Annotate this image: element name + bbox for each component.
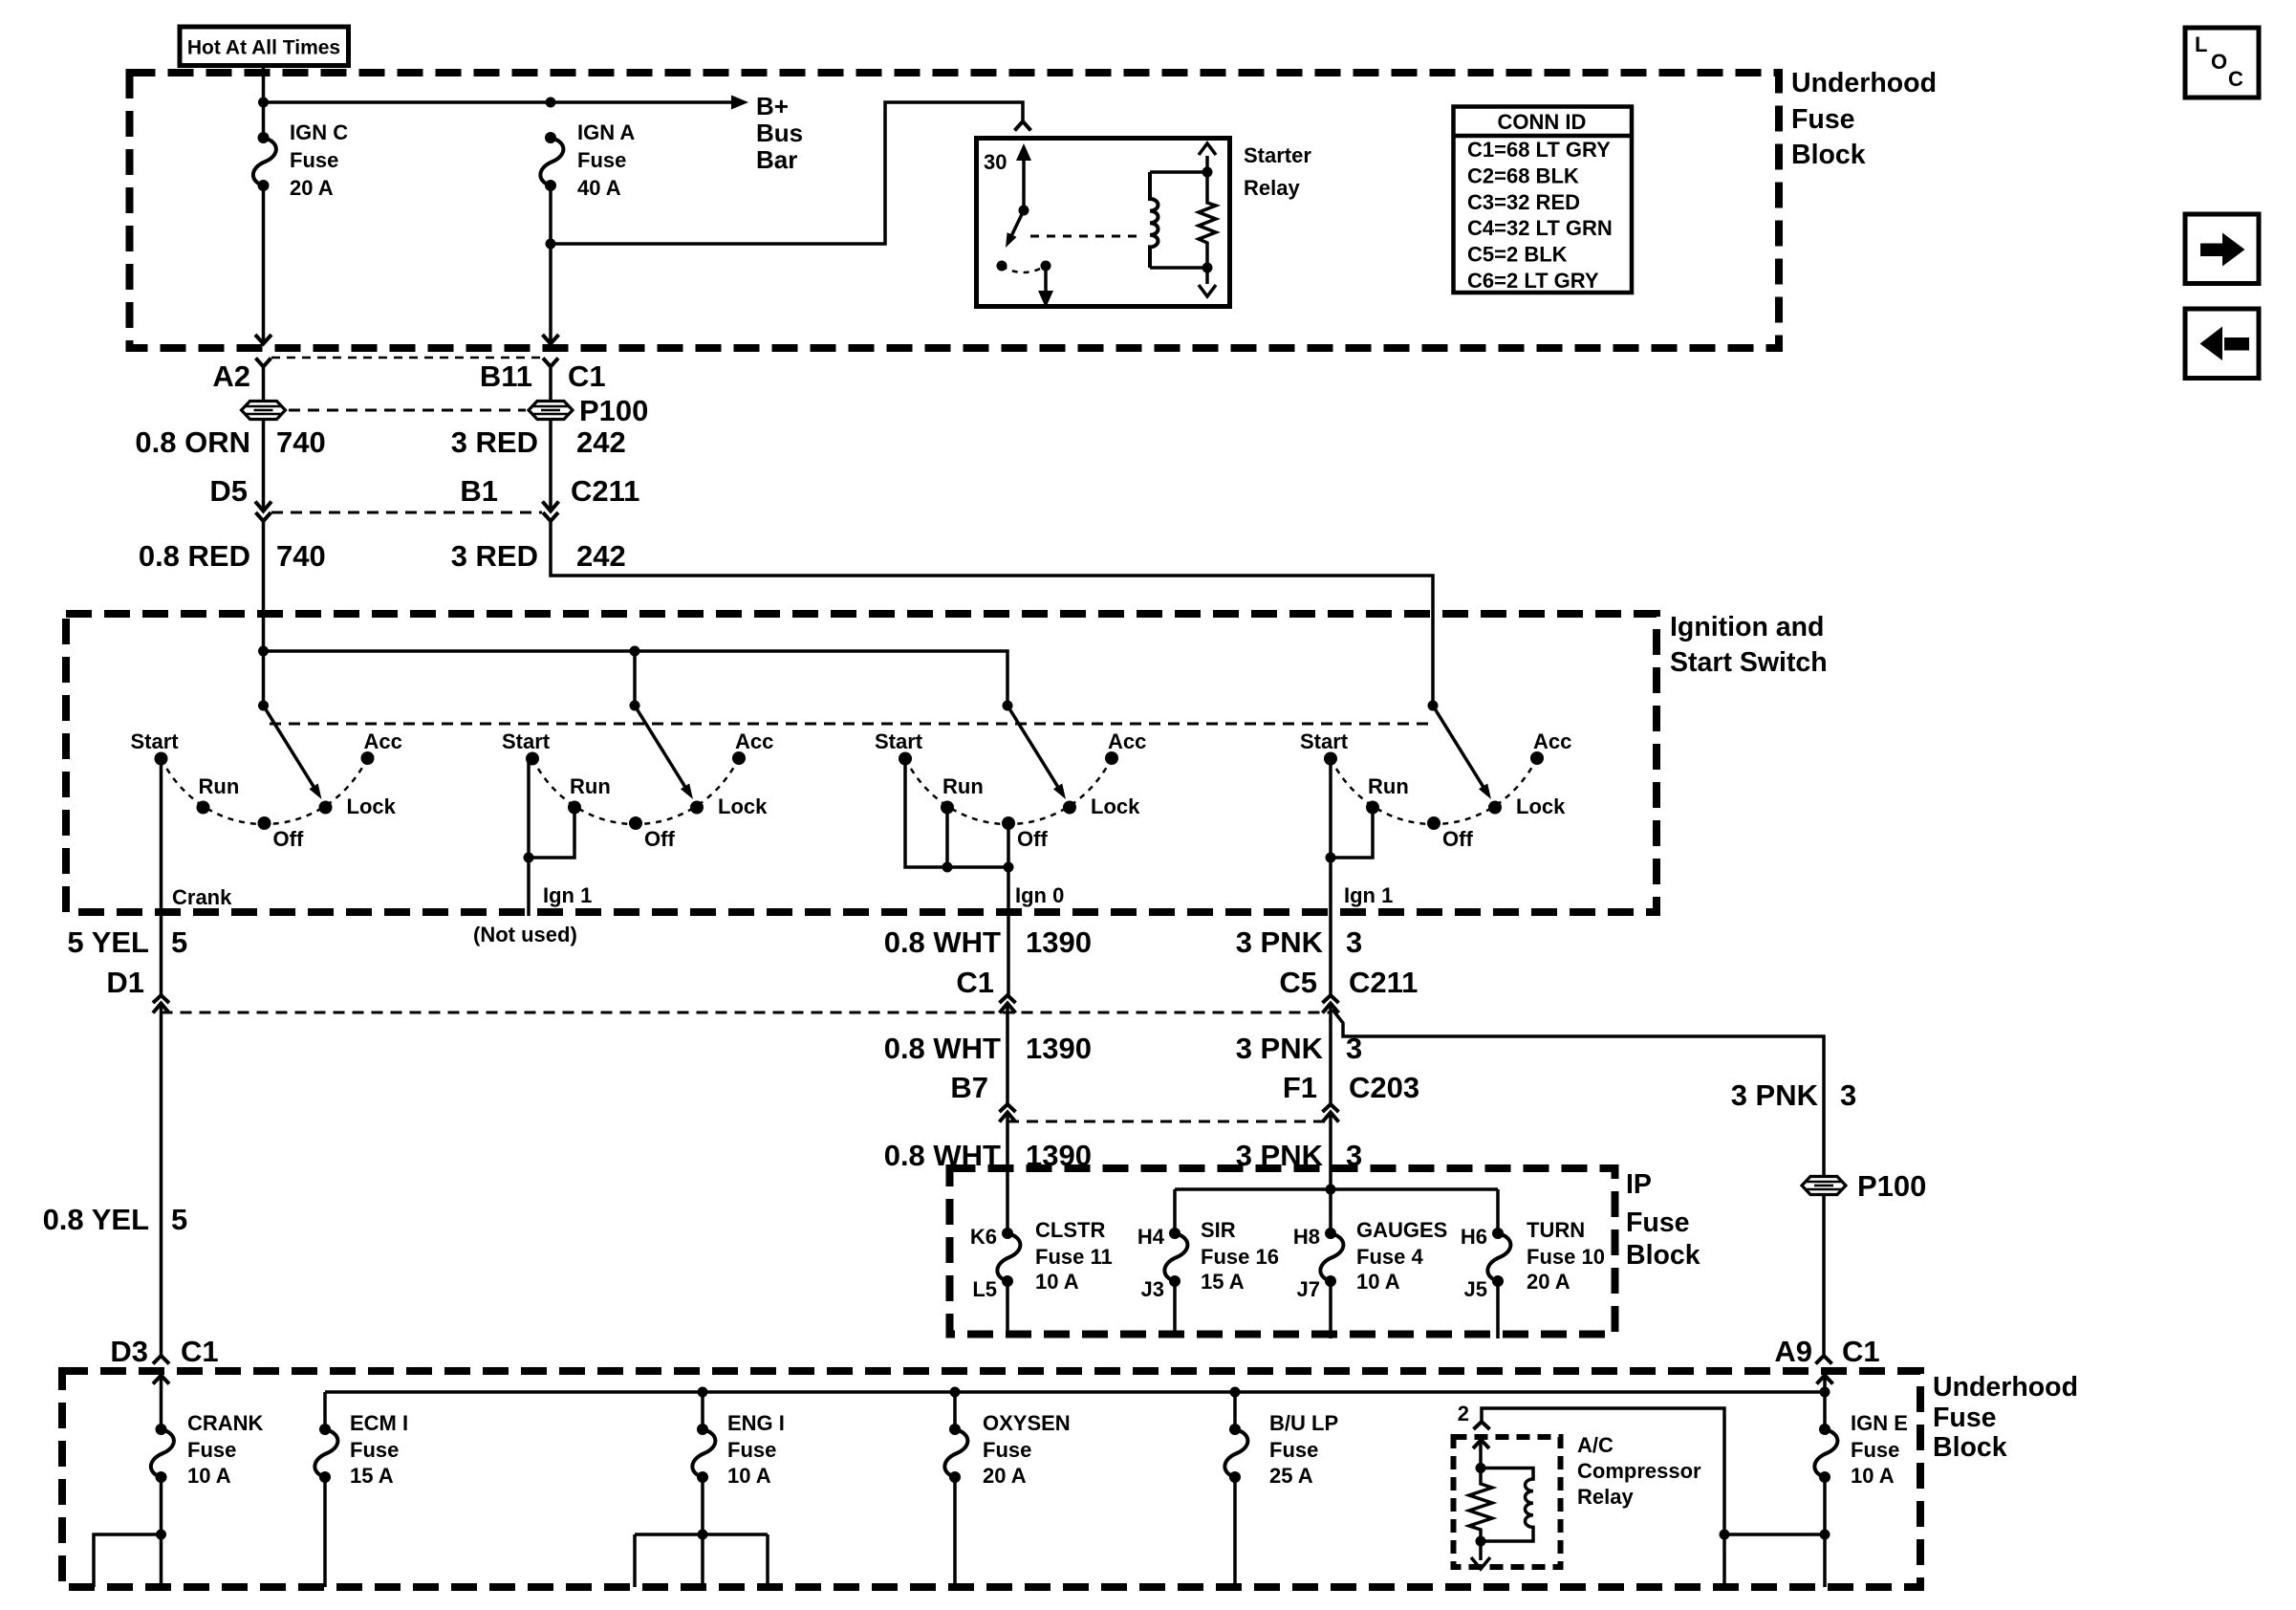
svg-text:Fuse: Fuse bbox=[1791, 104, 1855, 135]
svg-text:Run: Run bbox=[1368, 774, 1409, 798]
svg-text:Fuse: Fuse bbox=[1626, 1207, 1690, 1238]
svg-text:Ign 1: Ign 1 bbox=[1344, 883, 1393, 907]
svg-text:2: 2 bbox=[1458, 1402, 1469, 1425]
svg-text:K6: K6 bbox=[970, 1225, 997, 1249]
svg-text:C211: C211 bbox=[1349, 966, 1418, 999]
svg-text:Ignition and: Ignition and bbox=[1670, 612, 1824, 642]
svg-text:C2=68 BLK: C2=68 BLK bbox=[1467, 163, 1579, 187]
svg-text:D3: D3 bbox=[110, 1335, 148, 1368]
svg-text:Underhood: Underhood bbox=[1791, 68, 1937, 98]
svg-text:Fuse 16: Fuse 16 bbox=[1201, 1245, 1279, 1269]
svg-text:L5: L5 bbox=[972, 1277, 997, 1301]
svg-text:3 PNK: 3 PNK bbox=[1236, 1032, 1324, 1065]
svg-text:Start: Start bbox=[1300, 729, 1349, 753]
svg-text:Fuse: Fuse bbox=[1851, 1438, 1899, 1462]
svg-text:ECM I: ECM I bbox=[350, 1411, 408, 1435]
svg-text:Fuse: Fuse bbox=[350, 1438, 399, 1462]
svg-text:740: 740 bbox=[276, 425, 326, 459]
svg-text:20 A: 20 A bbox=[983, 1464, 1027, 1488]
svg-text:Start Switch: Start Switch bbox=[1670, 647, 1828, 678]
svg-text:Bus: Bus bbox=[756, 119, 803, 147]
svg-text:3: 3 bbox=[1840, 1078, 1856, 1112]
svg-text:Hot At All Times: Hot At All Times bbox=[187, 37, 340, 59]
svg-text:C203: C203 bbox=[1349, 1071, 1419, 1104]
svg-text:Fuse 11: Fuse 11 bbox=[1035, 1245, 1113, 1269]
svg-text:A9: A9 bbox=[1774, 1335, 1812, 1368]
svg-text:C3=32 RED: C3=32 RED bbox=[1467, 190, 1580, 214]
svg-text:Acc: Acc bbox=[1108, 729, 1146, 753]
svg-text:SIR: SIR bbox=[1201, 1218, 1236, 1242]
svg-text:242: 242 bbox=[576, 425, 626, 459]
svg-text:Start: Start bbox=[131, 729, 180, 753]
svg-text:Off: Off bbox=[1442, 827, 1473, 851]
svg-text:3: 3 bbox=[1346, 925, 1362, 959]
svg-text:0.8 WHT: 0.8 WHT bbox=[884, 1032, 1001, 1065]
svg-text:P100: P100 bbox=[579, 394, 648, 427]
svg-text:CONN ID: CONN ID bbox=[1498, 110, 1587, 134]
svg-text:Fuse 10: Fuse 10 bbox=[1527, 1245, 1605, 1269]
svg-text:Crank: Crank bbox=[172, 885, 232, 909]
svg-text:D5: D5 bbox=[209, 474, 248, 508]
svg-text:Run: Run bbox=[199, 774, 240, 798]
svg-text:A2: A2 bbox=[212, 359, 250, 393]
svg-text:J5: J5 bbox=[1464, 1277, 1487, 1301]
svg-text:5: 5 bbox=[171, 925, 187, 959]
svg-text:IP: IP bbox=[1626, 1169, 1652, 1200]
svg-text:Fuse: Fuse bbox=[290, 148, 338, 172]
svg-text:GAUGES: GAUGES bbox=[1356, 1218, 1447, 1242]
svg-text:B/U LP: B/U LP bbox=[1269, 1411, 1338, 1435]
svg-text:IGN C: IGN C bbox=[290, 120, 348, 144]
svg-text:Lock: Lock bbox=[718, 794, 768, 818]
svg-text:Off: Off bbox=[1017, 827, 1048, 851]
svg-text:1390: 1390 bbox=[1026, 1032, 1092, 1065]
svg-text:J3: J3 bbox=[1141, 1277, 1164, 1301]
svg-text:10 A: 10 A bbox=[1035, 1270, 1079, 1294]
svg-text:Off: Off bbox=[644, 827, 675, 851]
svg-text:Fuse: Fuse bbox=[187, 1438, 236, 1462]
svg-text:Start: Start bbox=[502, 729, 551, 753]
svg-text:ENG I: ENG I bbox=[727, 1411, 785, 1435]
svg-text:B+: B+ bbox=[756, 92, 789, 120]
svg-text:10 A: 10 A bbox=[1851, 1464, 1895, 1488]
svg-text:740: 740 bbox=[276, 539, 326, 573]
svg-text:Bar: Bar bbox=[756, 145, 797, 174]
svg-text:Relay: Relay bbox=[1577, 1485, 1634, 1509]
svg-text:Ign 1: Ign 1 bbox=[543, 883, 592, 907]
svg-text:TURN: TURN bbox=[1527, 1218, 1585, 1242]
svg-text:0.8 YEL: 0.8 YEL bbox=[43, 1203, 149, 1236]
svg-text:Fuse: Fuse bbox=[727, 1438, 776, 1462]
svg-text:C6=2 LT GRY: C6=2 LT GRY bbox=[1467, 269, 1599, 293]
svg-text:C: C bbox=[2228, 67, 2243, 91]
svg-text:Underhood: Underhood bbox=[1933, 1372, 2078, 1403]
svg-text:C211: C211 bbox=[571, 474, 639, 508]
svg-text:0.8 WHT: 0.8 WHT bbox=[884, 1139, 1001, 1172]
svg-text:C1: C1 bbox=[956, 966, 994, 999]
svg-text:C5: C5 bbox=[1279, 966, 1317, 999]
svg-text:Acc: Acc bbox=[1533, 729, 1571, 753]
svg-text:20 A: 20 A bbox=[290, 176, 334, 200]
svg-text:CRANK: CRANK bbox=[187, 1411, 264, 1435]
svg-text:5: 5 bbox=[171, 1203, 187, 1236]
svg-text:Fuse 4: Fuse 4 bbox=[1356, 1245, 1423, 1269]
svg-text:C5=2 BLK: C5=2 BLK bbox=[1467, 243, 1568, 267]
svg-text:Off: Off bbox=[273, 827, 304, 851]
svg-text:0.8 RED: 0.8 RED bbox=[139, 539, 250, 573]
svg-text:3 PNK: 3 PNK bbox=[1236, 925, 1324, 959]
svg-text:C1: C1 bbox=[1842, 1335, 1880, 1368]
svg-text:10 A: 10 A bbox=[187, 1464, 231, 1488]
svg-text:15 A: 15 A bbox=[1201, 1270, 1245, 1294]
svg-text:40 A: 40 A bbox=[577, 176, 621, 200]
svg-text:10 A: 10 A bbox=[1356, 1270, 1400, 1294]
svg-text:B7: B7 bbox=[950, 1071, 988, 1104]
svg-text:25 A: 25 A bbox=[1269, 1464, 1313, 1488]
svg-text:Block: Block bbox=[1791, 140, 1866, 170]
svg-text:Block: Block bbox=[1626, 1240, 1700, 1271]
svg-text:Acc: Acc bbox=[735, 729, 773, 753]
svg-text:Relay: Relay bbox=[1244, 176, 1300, 200]
svg-text:3 RED: 3 RED bbox=[451, 539, 538, 573]
svg-text:B11: B11 bbox=[480, 359, 532, 393]
svg-text:P100: P100 bbox=[1857, 1169, 1926, 1203]
svg-text:Acc: Acc bbox=[364, 729, 402, 753]
svg-text:0.8 ORN: 0.8 ORN bbox=[135, 425, 250, 459]
svg-text:H6: H6 bbox=[1461, 1225, 1487, 1249]
svg-text:0.8 WHT: 0.8 WHT bbox=[884, 925, 1001, 959]
svg-text:Fuse: Fuse bbox=[983, 1438, 1031, 1462]
svg-text:CLSTR: CLSTR bbox=[1035, 1218, 1105, 1242]
svg-text:5 YEL: 5 YEL bbox=[67, 925, 149, 959]
svg-text:30: 30 bbox=[984, 150, 1007, 174]
svg-text:Lock: Lock bbox=[1516, 794, 1566, 818]
svg-text:L: L bbox=[2195, 33, 2207, 56]
svg-text:IGN A: IGN A bbox=[577, 120, 635, 144]
svg-text:IGN E: IGN E bbox=[1851, 1411, 1908, 1435]
svg-text:C4=32 LT GRN: C4=32 LT GRN bbox=[1467, 216, 1613, 240]
svg-text:Fuse: Fuse bbox=[1269, 1438, 1318, 1462]
svg-text:10 A: 10 A bbox=[727, 1464, 771, 1488]
svg-text:Block: Block bbox=[1933, 1432, 2007, 1463]
svg-text:OXYSEN: OXYSEN bbox=[983, 1411, 1071, 1435]
svg-text:Ign 0: Ign 0 bbox=[1015, 883, 1064, 907]
svg-text:C1=68 LT GRY: C1=68 LT GRY bbox=[1467, 138, 1611, 162]
svg-text:Fuse: Fuse bbox=[577, 148, 626, 172]
svg-text:242: 242 bbox=[576, 539, 626, 573]
svg-text:J7: J7 bbox=[1297, 1277, 1320, 1301]
svg-text:15 A: 15 A bbox=[350, 1464, 394, 1488]
svg-text:Run: Run bbox=[942, 774, 984, 798]
svg-text:F1: F1 bbox=[1283, 1071, 1317, 1104]
svg-text:O: O bbox=[2211, 50, 2227, 74]
svg-text:H8: H8 bbox=[1293, 1225, 1320, 1249]
svg-text:Fuse: Fuse bbox=[1933, 1403, 1997, 1433]
svg-text:Lock: Lock bbox=[347, 794, 397, 818]
svg-text:A/C: A/C bbox=[1577, 1433, 1614, 1457]
svg-text:H4: H4 bbox=[1137, 1225, 1165, 1249]
svg-text:Starter: Starter bbox=[1244, 143, 1311, 167]
svg-text:C1: C1 bbox=[568, 359, 606, 393]
svg-text:Lock: Lock bbox=[1091, 794, 1140, 818]
svg-text:C1: C1 bbox=[181, 1335, 219, 1368]
svg-text:(Not used): (Not used) bbox=[473, 923, 577, 946]
svg-text:Start: Start bbox=[875, 729, 923, 753]
svg-text:Run: Run bbox=[570, 774, 611, 798]
svg-text:3 PNK: 3 PNK bbox=[1731, 1078, 1819, 1112]
svg-text:3 RED: 3 RED bbox=[451, 425, 538, 459]
svg-text:B1: B1 bbox=[460, 474, 498, 508]
svg-text:Compressor: Compressor bbox=[1577, 1459, 1701, 1483]
svg-text:1390: 1390 bbox=[1026, 925, 1092, 959]
svg-text:D1: D1 bbox=[106, 966, 144, 999]
svg-text:20 A: 20 A bbox=[1527, 1270, 1570, 1294]
